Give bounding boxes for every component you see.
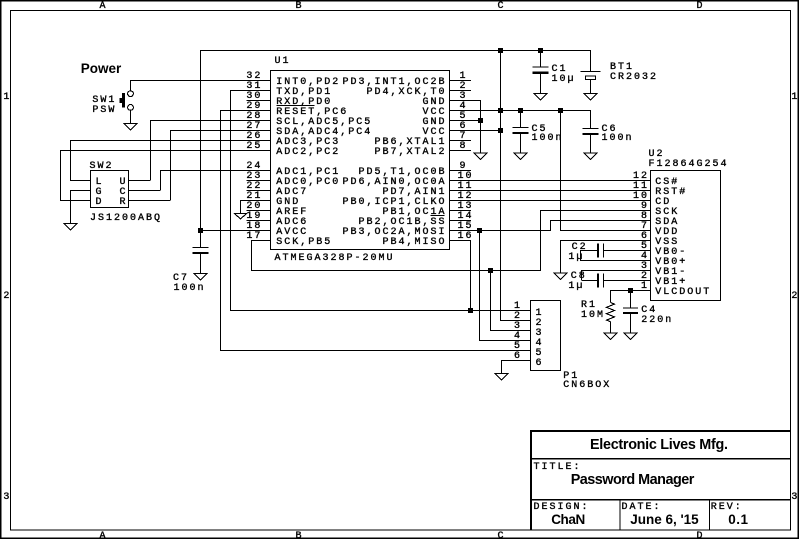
U2 pin label VB1+: [655, 278, 687, 288]
U1 pin 26 number: [246, 132, 262, 142]
wire U1 pin 5 GND: [450, 120, 482, 121]
wire P1 pin 5 run: [220, 350, 531, 351]
wire GND vertical pins 3-5: [480, 100, 481, 153]
U1 pin 27 number: [246, 122, 262, 132]
U1 pin 30 stub: [246, 100, 270, 101]
U1 pin 13 number: [458, 202, 474, 212]
U1 pin label PB3,OC2A,MOSI: [343, 228, 447, 238]
U1 pin 30 number: [246, 92, 262, 102]
U1 pin 2 stub right: [450, 90, 472, 91]
U2 pin 4 number: [641, 252, 649, 262]
ground below U1 pin 21: [235, 214, 247, 220]
wire SDA to U2: [550, 220, 651, 221]
U1 pin label TXD,PD1: [276, 88, 332, 98]
VCC vertical line: [500, 50, 501, 320]
resistor R1 zigzag: [607, 303, 615, 322]
wire MISO vertical to P1 pin 1: [470, 240, 471, 310]
frame column label D top: [697, 2, 705, 12]
title block divider design/date: [620, 501, 621, 531]
wire P1 pin 4 from MOSI: [479, 340, 531, 341]
U1 pin 2 number: [460, 82, 468, 92]
U1 reference label: [275, 57, 291, 67]
BT1 part CR2032: [610, 73, 658, 83]
U1 pin 11 number: [458, 182, 474, 192]
C4 value 220n: [641, 316, 673, 326]
wire VDD vertical: [560, 110, 561, 230]
label DATE:: [622, 503, 662, 513]
capacitor C8 right wire to U2 VB1+: [604, 280, 651, 281]
wire SW2 U to U1 pin 28: [150, 120, 271, 121]
SW2 contact label G: [96, 188, 104, 198]
wire P1 pin 2 from VCC: [500, 320, 531, 321]
ground below C4: [624, 333, 637, 340]
R1 value 10M: [581, 311, 605, 321]
wire U1 pin 16 MISO: [450, 240, 472, 241]
wire U1 pin 21 GND stub: [240, 200, 271, 201]
U2 pin label VSS: [655, 238, 679, 248]
U1 pin label ADC3,PC3: [276, 138, 340, 148]
junction pin6 VCC: [498, 128, 503, 133]
wire SW2 L vertical: [70, 140, 71, 180]
capacitor C1 top plate: [533, 67, 549, 68]
U1 pin 9 number: [460, 162, 468, 172]
ground below C7: [194, 274, 207, 281]
U1 pin 17 number: [246, 232, 262, 242]
U1 pin label VCC: [423, 108, 447, 118]
U1 pin label PB2,OC1B,SS: [359, 218, 447, 228]
U1 pin label SCK,PB5: [276, 238, 332, 248]
battery BT1 top lead: [590, 50, 591, 71]
U1 pin label ADC0,PC0: [276, 178, 340, 188]
C7 value 100n: [174, 284, 206, 294]
title block left edge: [530, 430, 532, 530]
wire SW2 D stub: [60, 200, 91, 201]
junction pin5 GND: [478, 118, 483, 123]
wire U1 pin 3 GND: [450, 100, 482, 101]
C2 reference label: [572, 243, 588, 253]
U1 pin 28 number: [246, 112, 262, 122]
ground below VSS: [554, 273, 567, 280]
P1 pin 3 number outside: [514, 322, 522, 332]
U1 pin 23 wire start: [246, 180, 270, 181]
U2 pin label SCK: [655, 208, 679, 218]
wire SW1 top lead: [130, 80, 131, 91]
capacitor C1 bottom lead: [540, 74, 541, 93]
C2 value 1u: [568, 253, 584, 263]
P1 pin 3 number inside: [536, 329, 544, 339]
capacitor C8 left wire: [582, 280, 597, 281]
capacitor C6 bottom lead: [590, 135, 591, 152]
P1 pin 1 number inside: [536, 309, 544, 319]
label DESIGN:: [534, 503, 590, 513]
label REV:: [711, 503, 743, 513]
capacitor C1 top lead: [540, 50, 541, 67]
U1 pin label GND: [423, 98, 447, 108]
U1 pin 8 number: [460, 142, 468, 152]
U1 pin label GND: [276, 198, 300, 208]
C6 value 100n: [602, 134, 634, 144]
wire U1 pin 11 to U2 RST#: [450, 190, 651, 191]
U1 pin label PB6,XTAL1: [375, 138, 447, 148]
SW2 part number JS1200ABQ: [90, 214, 162, 224]
wire SW1 to U1 pin 32: [130, 80, 271, 81]
wire TXD vertical to P1 pin 1: [230, 90, 231, 310]
SW1 reference label: [92, 96, 116, 106]
SW2 contact label D: [96, 198, 104, 208]
U2 pin label VDD: [655, 228, 679, 238]
date June 6, '15: [630, 513, 699, 527]
U1 pin 12 number: [458, 192, 474, 202]
wire U1 pin 17 SCK stub: [251, 240, 271, 241]
P1 reference label: [563, 372, 579, 382]
U1 pin 1 stub right: [450, 80, 472, 81]
wire U1 pin 12 to U2 CD: [450, 200, 651, 201]
ground below SW2: [64, 224, 77, 231]
ground below C1: [534, 94, 547, 101]
wire P1 pin 3 from SCK: [490, 330, 531, 331]
U1 pin label SDA,ADC4,PC4: [276, 128, 372, 138]
SW2 reference label: [90, 162, 114, 172]
title block divider date/rev: [709, 501, 710, 531]
U1 pin 22 number: [246, 182, 262, 192]
U1 RESET overline: [276, 105, 314, 106]
U2 pin label VB1-: [655, 268, 687, 278]
U1 pin 25 number: [246, 142, 262, 152]
switch SW1 bottom contact circle: [128, 105, 134, 111]
capacitor C2 right wire to U2 VB0-: [604, 250, 651, 251]
wire C2 jog to VB0+ row: [580, 250, 581, 260]
U1 pin 29 number: [246, 102, 262, 112]
frame column label D bottom: [697, 532, 705, 540]
wire SW2 R to U1 pin 27: [170, 130, 271, 131]
C8 value 1u: [568, 282, 584, 292]
wire SW2 D to U1 pin 25: [60, 150, 271, 151]
wire MOSI vertical to P1 pin 4: [479, 230, 480, 340]
junction VCC rail vertical: [498, 108, 503, 113]
resistor R1 bottom lead: [610, 322, 611, 333]
U1 pin label ADC7: [276, 188, 308, 198]
wire VDD to U2: [560, 230, 651, 231]
U1 part number ATMEGA328P-20MU: [275, 254, 395, 264]
frame column label B bottom: [296, 532, 304, 540]
wire U1 pin 29 RESET: [220, 110, 271, 111]
U1 pin label ADC2,PC2: [276, 148, 340, 158]
U1 pin 24 number: [246, 162, 262, 172]
ground below SW1: [124, 124, 137, 131]
frame column label A top: [100, 2, 108, 12]
C7 reference label: [173, 274, 189, 284]
ground below BT1: [584, 94, 597, 101]
capacitor C5 bottom lead: [520, 134, 521, 152]
U1 pin 22 stub: [246, 190, 270, 191]
SW1 name PSW: [92, 106, 116, 116]
U1 pin 14 stub right: [450, 220, 472, 221]
capacitor C5 top lead: [520, 110, 521, 127]
U1 pin 21 number: [246, 192, 262, 202]
U1 pin label PD4,XCK,T0: [367, 88, 447, 98]
title block divider under title: [532, 499, 790, 501]
capacitor C4 bottom lead: [630, 314, 631, 332]
U1 pin 31 number: [246, 82, 262, 92]
U1 pin label AREF: [276, 208, 308, 218]
ground below P1 pin 6: [495, 374, 508, 381]
U2 pin 11 number: [633, 182, 649, 192]
U2 pin label VB0+: [655, 258, 687, 268]
revision 0.1: [728, 513, 748, 527]
SW2 contact label C: [120, 188, 128, 198]
U2 pin label SDA: [655, 218, 679, 228]
SW2 contact label U: [120, 178, 128, 188]
capacitor C4 top lead: [630, 290, 631, 307]
wire SW2 G ground lead: [70, 190, 71, 223]
label TITLE:: [534, 463, 582, 473]
wire VB0+ to U2: [580, 260, 651, 261]
wire SCK to U2: [540, 210, 651, 211]
wire U2 VSS: [560, 240, 651, 241]
wire SW2 U stub: [129, 180, 151, 181]
U1 pin label INT0,PD2: [276, 78, 340, 88]
capacitor C7 top plate: [193, 247, 209, 248]
U1 pin label PD7,AIN1: [383, 188, 447, 198]
junction SCK P1: [488, 268, 493, 273]
top power rail: [200, 50, 591, 51]
capacitor C4 top plate: [623, 307, 638, 308]
capacitor C6 bottom plate: [583, 133, 599, 135]
capacitor C6 top lead: [590, 110, 591, 128]
capacitor C7 top lead: [200, 230, 201, 247]
U1 pin label PD5,T1,OC0B: [359, 168, 447, 178]
capacitor C7 bottom lead: [200, 254, 201, 273]
junction MOSI P1: [477, 228, 482, 233]
U1 pin label RXD,PD0: [276, 98, 332, 108]
capacitor C7 bottom plate: [193, 252, 209, 254]
U2 pin label CD: [655, 198, 671, 208]
U1 pin 20 stub: [246, 210, 270, 211]
U1 pin label PD3,INT1,OC2B: [343, 78, 447, 88]
capacitor C2 left wire: [581, 250, 597, 251]
ground below C5: [514, 153, 527, 160]
U1 pin label ADC1,PC1: [276, 168, 340, 178]
wire SCK vertical jog: [540, 210, 541, 270]
wire C8 jog to VB1- row: [581, 270, 582, 280]
resistor R1 top lead: [610, 290, 611, 303]
U2 pin 5 number: [641, 242, 649, 252]
wire SW2 U vertical: [150, 120, 151, 180]
capacitor C8 right plate: [603, 274, 604, 288]
U2 pin 10 number: [633, 192, 649, 202]
U1 pin 18 number: [246, 222, 262, 232]
U2 pin 1 number: [641, 282, 649, 292]
SW2 contact label R: [120, 198, 128, 208]
U1 pin label PB1,OC1A: [383, 208, 447, 218]
frame column label A bottom: [100, 532, 108, 540]
P1 part CN6BOX: [563, 381, 611, 391]
Power heading: [81, 62, 122, 76]
U1 pin 20 number: [246, 202, 262, 212]
U1 pin 8 stub right: [450, 150, 472, 151]
U2 pin 9 number: [641, 202, 649, 212]
U1 pin 7 stub right: [450, 140, 472, 141]
junction VCC rail C5: [518, 108, 523, 113]
C6 reference label: [602, 125, 618, 135]
wire VB1- to U2: [581, 270, 651, 271]
U1 pin 3 number: [460, 92, 468, 102]
U2 pin 6 number: [641, 232, 649, 242]
wire U2 VLCDOUT: [610, 290, 651, 291]
wire P1 pin 6 ground lead: [501, 360, 502, 373]
U1 pin 19 number: [246, 212, 262, 222]
wire SDA vertical jog: [550, 220, 551, 230]
wire SW1 bottom lead: [130, 110, 131, 123]
ground below U1 pin 3/5: [474, 153, 487, 160]
capacitor C4 bottom plate: [623, 312, 638, 314]
wire SW2 L to U1 pin 26: [70, 140, 271, 141]
C5 value 100n: [532, 134, 564, 144]
frame row label 2 right: [791, 292, 799, 302]
U1 pin label PB0,ICP1,CLKO: [343, 198, 447, 208]
U1 pin 15 number: [458, 222, 474, 232]
C4 reference label: [641, 306, 657, 316]
title Password Manager: [571, 473, 694, 487]
frame row label 3 left: [3, 493, 11, 503]
wire SW2 C stub: [129, 190, 161, 191]
P1 pin 2 number outside: [514, 312, 522, 322]
U1 pin 16 number: [458, 232, 474, 242]
U1 pin 9 stub right: [450, 170, 472, 171]
company name Electronic Lives Mfg.: [590, 438, 728, 452]
U1 pin 19 stub: [246, 220, 270, 221]
capacitor C8 left plate: [597, 274, 599, 288]
wire SCK vertical below U1: [251, 240, 252, 270]
frame row label 3 right: [791, 493, 799, 503]
P1 pin 5 number outside: [514, 342, 522, 352]
U1 pin 32 number: [246, 72, 262, 82]
junction MISO P1 pin1: [468, 308, 473, 313]
U1 pin label AVCC: [276, 228, 308, 238]
U1 pin 4 number: [460, 102, 468, 112]
U1 pin 14 number: [458, 212, 474, 222]
frame row label 1 right: [791, 93, 799, 103]
U2 pin label VB0-: [655, 248, 687, 258]
wire U1 pin 31 TXD: [230, 90, 271, 91]
P1 pin 6 number inside: [536, 359, 544, 369]
junction VCC rail VDD drop: [558, 108, 563, 113]
switch SW2 box: [91, 171, 129, 208]
wire GND lead down: [240, 200, 241, 213]
junction top rail VCC line: [498, 48, 503, 53]
wire SW2 R stub: [129, 200, 171, 201]
R1 reference label: [581, 301, 597, 311]
C5 reference label: [532, 125, 548, 135]
ground below R1: [604, 333, 617, 340]
U2 pin 7 number: [641, 222, 649, 232]
C8 reference label: [571, 272, 587, 282]
U1 pin label PB7,XTAL2: [375, 148, 447, 158]
U1 pin label PB4,MISO: [383, 238, 447, 248]
capacitor C1 bottom plate: [533, 72, 549, 74]
wire SW2 D vertical: [60, 150, 61, 200]
capacitor C2 right plate: [603, 244, 604, 258]
U1 pin 10 number: [458, 172, 474, 182]
P1 pin 1 number outside: [514, 302, 522, 312]
title block top edge: [530, 430, 790, 432]
U2 pin 2 number: [641, 272, 649, 282]
P1 pin 2 number inside: [536, 319, 544, 329]
U2 reference label: [649, 150, 665, 160]
frame row label 2 left: [3, 292, 11, 302]
U2 pin label RST#: [655, 188, 687, 198]
capacitor C6 top plate: [583, 128, 599, 129]
U1 pin 7 number: [460, 132, 468, 142]
U1 pin 1 number: [460, 72, 468, 82]
U2 pin label VLCDOUT: [655, 288, 711, 298]
U1 pin label GND: [423, 118, 447, 128]
U1 SS overline: [431, 215, 445, 216]
connector P1 box: [531, 301, 561, 371]
capacitor C5 bottom plate: [513, 132, 529, 134]
U1 pin 23 number: [246, 172, 262, 182]
C1 reference label: [552, 65, 568, 75]
U1 pin label VCC: [423, 128, 447, 138]
U2 pin label CS#: [655, 178, 679, 188]
wire SW2 L stub: [70, 180, 91, 181]
U1 pin label PD6,AIN0,OC0A: [343, 178, 447, 188]
wire SW2 R vertical: [170, 130, 171, 200]
switch SW1 plunger: [122, 93, 125, 107]
wire VSS ground lead: [560, 240, 561, 273]
IC U1 ATMEGA328P box: [271, 71, 450, 250]
title block divider under company: [532, 458, 790, 460]
frame row label 1 left: [3, 93, 11, 103]
frame column label C bottom: [498, 532, 506, 540]
battery BT1 positive plate: [581, 71, 601, 72]
P1 pin 6 number outside: [514, 352, 522, 362]
P1 pin 4 number outside: [514, 332, 522, 342]
U2 pin 8 number: [641, 212, 649, 222]
wire SCK bottom run: [251, 270, 541, 271]
wire SW2 C vertical jog: [160, 170, 161, 190]
capacitor C5 top plate: [513, 127, 529, 128]
ground below C6: [584, 153, 597, 160]
wire SW2 G stub: [70, 190, 91, 191]
SW2 contact label L: [96, 178, 104, 188]
wire U1 pin 10 to U2 CS#: [450, 180, 651, 181]
wire SCK vertical to P1 pin 3: [490, 270, 491, 330]
U1 pin label RESET,PC6: [276, 108, 348, 118]
wire RESET vertical to P1 pin 5: [220, 110, 221, 350]
power line left vertical: [200, 50, 201, 230]
P1 pin 4 number inside: [536, 339, 544, 349]
wire U1 pin 6 VCC: [450, 130, 502, 131]
wire P1 pin 6 stub: [501, 360, 531, 361]
U2 part number F12864G254: [649, 160, 729, 170]
U1 pin 13 stub right: [450, 210, 472, 211]
wire P1 pin 1 run: [230, 310, 531, 311]
wire U1 pin 18 AVCC: [200, 230, 271, 231]
frame column label C top: [498, 2, 506, 12]
U1 pin 5 number: [460, 112, 468, 122]
U1 pin 6 number: [460, 122, 468, 132]
U2 pin 12 number: [633, 172, 649, 182]
capacitor C2 left plate: [597, 244, 599, 258]
wire SW2 C to U1 pin 24: [160, 170, 271, 171]
BT1 reference label: [610, 63, 634, 73]
designer ChaN: [551, 513, 585, 527]
U1 pin label ADC6: [276, 218, 308, 228]
switch SW1 top contact circle: [128, 91, 134, 97]
frame column label B top: [296, 2, 304, 12]
VCC rail: [450, 110, 592, 111]
